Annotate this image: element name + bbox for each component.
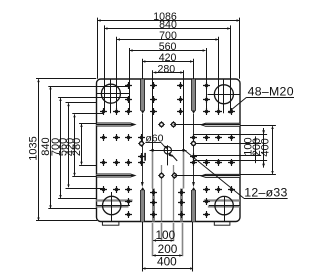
center hole crosshair [150, 150, 187, 152]
svg-text:400: 400 [157, 254, 177, 268]
svg-text:420: 420 [159, 52, 177, 64]
platen plate outline [97, 79, 241, 222]
leader 12-ø33 [244, 198, 288, 200]
gray slot lines bottom-left [96, 199, 132, 201]
svg-text:280: 280 [71, 138, 83, 156]
foot tab bottom-right [214, 222, 230, 225]
dim 840 left [50, 87, 52, 209]
center hole circle ø60 [164, 147, 171, 154]
tie-bar crosshairs [96, 93, 129, 95]
vertical extension lines from top dims [97, 18, 99, 79]
foot tab bottom-left [102, 222, 119, 225]
slot horizontal lower-right [201, 174, 240, 177]
tie-bar hole bottom-right [215, 196, 233, 214]
interior vertical lines to bottom slot tips [142, 114, 144, 183]
bottom dim lines 100/200/400 [153, 240, 173, 242]
slot horizontal mid-right [201, 123, 240, 126]
M20 holes on bottom gray bars [150, 189, 157, 196]
M20 hole row y=162.5 [100, 159, 107, 166]
dim 420 top [143, 61, 193, 63]
svg-text:100: 100 [155, 228, 175, 242]
M20 hole row y=137.6 [100, 134, 107, 141]
tie-bar hole bottom-left [103, 196, 121, 214]
slot horizontal lower-left [96, 174, 135, 177]
svg-text:48–M20: 48–M20 [248, 85, 294, 99]
M20 hole row y=201.7 [125, 198, 132, 205]
leader 48-M20 [247, 97, 294, 99]
small dark bar detail left of center [144, 153, 146, 161]
leader ø60 shelf [145, 142, 161, 144]
dim 840 top [105, 28, 231, 30]
connector lines from ø33 holes to right slots [174, 124, 205, 126]
tie-bar hole top-right [214, 85, 233, 104]
M20 hole row y=214.8 [125, 211, 132, 218]
bottom vertical extension lines [142, 222, 144, 272]
right dim lines 100/200/400 [255, 136, 257, 163]
dim 1035 [38, 79, 40, 220]
dim 420 left [74, 114, 76, 175]
dim 280 top [153, 72, 183, 74]
M20 hole row y=99.4 [125, 96, 132, 103]
T-slot vertical bottom-left [141, 190, 145, 222]
thin gray line x174 [173, 165, 175, 222]
thin gray line x161 [161, 165, 163, 222]
dim 560 left [68, 103, 70, 187]
M20 hole row y=189.3 [100, 186, 107, 193]
tie-bar hole top-left [101, 84, 120, 103]
right side extension lines 100/200/400 [240, 125, 276, 127]
svg-text:280: 280 [157, 63, 175, 75]
M20 hole row y=111.8 [100, 108, 107, 115]
gray bar bottom-center-right x181 [183, 152, 185, 189]
T-slot vertical bottom-right [192, 190, 196, 222]
M20 hole row y=156.1 [138, 153, 145, 160]
slot horizontal mid-left [96, 123, 135, 126]
gray bar bottom-center-left x154 [152, 152, 154, 189]
dim 1086 [98, 20, 240, 22]
M20 hole row y=85.3 [125, 82, 132, 89]
T-slot vertical top-left [141, 79, 145, 110]
svg-text:1035: 1035 [27, 136, 39, 160]
svg-text:700: 700 [159, 30, 177, 42]
dim 280 left [81, 124, 83, 165]
horizontal extension lines left dims [36, 78, 96, 80]
dim 700 left [60, 98, 62, 198]
gray slot lines bottom-right [204, 199, 240, 201]
T-slot vertical top-right [192, 79, 196, 110]
node dots on centerline [151, 149, 154, 152]
dim 560 top [130, 50, 206, 52]
svg-text:12–ø33: 12–ø33 [244, 185, 288, 199]
leader arrow near ø60 [172, 155, 178, 161]
12 ø33 holes [158, 121, 165, 128]
svg-text:840: 840 [159, 19, 177, 31]
svg-text:400: 400 [260, 138, 272, 156]
dim 700 top [117, 39, 218, 41]
